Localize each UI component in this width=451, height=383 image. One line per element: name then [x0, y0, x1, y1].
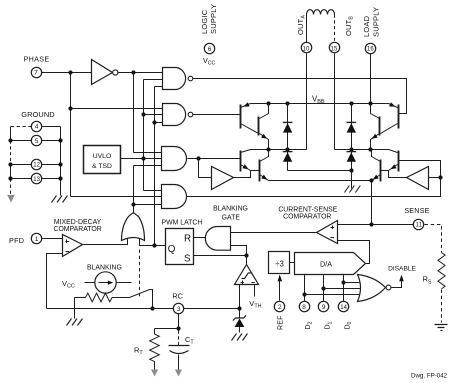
node D2 tap — [302, 292, 306, 296]
wire latch Q to OR gate — [140, 239, 166, 246]
wire G4 out to right sink drive — [187, 161, 441, 197]
pin 4 GROUND — [31, 121, 41, 131]
wire OUT B rail — [335, 149, 389, 151]
node right drive junction — [438, 175, 442, 179]
wire ground right rail — [60, 127, 62, 196]
wire VBB rail — [251, 103, 389, 105]
pin 9 D1 — [318, 301, 328, 311]
wire bus inverter to G3 — [133, 73, 135, 153]
flip-flop PWM latch — [166, 229, 194, 265]
node D0 tap — [341, 280, 345, 284]
node uvlo bus G2 tap — [141, 112, 145, 116]
wire D1 bit line — [323, 275, 325, 302]
svg-text:8: 8 — [302, 304, 306, 311]
wire resistor left to ground — [74, 298, 76, 319]
svg-text:Q: Q — [168, 244, 176, 255]
transistor Q5 PNP source-right — [381, 102, 399, 133]
pin 14 D0 — [338, 301, 348, 311]
node sense tap — [369, 178, 373, 182]
wire pin16 to VBB rail — [370, 54, 372, 104]
transistor Q1 PNP source-left — [241, 102, 259, 133]
svg-text:LOGIC: LOGIC — [200, 9, 209, 34]
node VBB taps — [266, 101, 270, 105]
svg-text:D/A: D/A — [320, 260, 332, 269]
svg-text:RC: RC — [172, 292, 182, 301]
node sense junction — [369, 222, 373, 226]
wire emitter bottom rail — [269, 180, 372, 182]
transistor Q6 NPN source-right — [370, 104, 379, 150]
node osc RC junction — [237, 306, 241, 310]
svg-text:2: 2 — [278, 304, 282, 311]
gate G3 AND sink-left — [121, 147, 187, 171]
pin 6 LOGIC SUPPLY — [204, 43, 214, 53]
wire pin1 to comparator — [42, 238, 63, 240]
svg-text:GROUND: GROUND — [21, 110, 54, 119]
wire inverter out to gate G1 — [118, 72, 163, 74]
wire G2 out to Q1 base — [193, 114, 241, 116]
wire pin13 right — [42, 178, 61, 180]
node switch to RC wire — [150, 306, 154, 310]
transistor Q2 NPN source-left — [259, 104, 269, 150]
svg-text:& TSD: & TSD — [92, 163, 112, 170]
wire pin4 left dashed — [11, 126, 32, 128]
svg-text:S: S — [184, 253, 191, 264]
wire comparator minus loop to D/A — [338, 241, 370, 264]
wire source to switch stub — [117, 282, 132, 284]
wire bus blanking-OR to G3-G4 — [133, 166, 135, 214]
wire inductor to pin10 — [306, 15, 308, 43]
svg-text:PFD: PFD — [9, 236, 24, 245]
op-amp current-sense comparator — [317, 221, 338, 244]
node RT-CT junction — [176, 326, 180, 330]
node uvlo bus G3 tap — [141, 156, 145, 160]
svg-text:3: 3 — [177, 306, 181, 313]
svg-text:7: 7 — [34, 70, 38, 77]
transistor Q3 NPN sink-left — [241, 150, 260, 172]
pin 1 PFD — [31, 233, 41, 243]
node S osc junction — [244, 253, 248, 257]
diode D2 lower-left — [283, 150, 293, 171]
oscillator comparator with hysteresis — [235, 256, 259, 285]
svg-text:REF: REF — [278, 315, 285, 330]
node OR bus G4 tap — [131, 202, 135, 206]
svg-text:10: 10 — [303, 47, 310, 53]
transistor Q4 NPN sink-left — [260, 150, 269, 182]
ground arrow left rail — [7, 195, 15, 203]
wire sense drop — [371, 181, 373, 225]
wire D2 bit line — [304, 275, 306, 302]
svg-text:COMPARATOR: COMPARATOR — [53, 226, 101, 233]
svg-text:PWM LATCH: PWM LATCH — [162, 220, 203, 227]
buffer B2 — [407, 167, 429, 190]
svg-text:Dwg. FP-042: Dwg. FP-042 — [411, 372, 448, 379]
node right rail joints — [58, 138, 62, 142]
wire OR out to bus — [133, 205, 135, 214]
wire OUT B vertical — [334, 54, 336, 150]
op-amp mixed-decay comparator — [63, 235, 83, 257]
svg-text:SENSE: SENSE — [404, 206, 429, 215]
wire comparator out to blanking gate — [231, 232, 317, 234]
pin 5 GROUND — [31, 135, 41, 145]
node OUT A taps — [266, 147, 270, 151]
resistor RT — [150, 334, 160, 372]
D/A converter box — [295, 253, 366, 275]
wire B2 out to Q4' base — [389, 171, 407, 178]
wire pin12 right — [42, 164, 61, 166]
wire RC line — [47, 308, 240, 310]
zener diode threshold — [233, 309, 246, 333]
gate G1 NAND source-left — [144, 68, 193, 90]
svg-text:GATE: GATE — [222, 215, 241, 222]
svg-text:16: 16 — [367, 47, 374, 53]
diode D4 lower-right — [347, 150, 357, 171]
pin 13 GROUND — [31, 173, 41, 183]
node OUT B taps — [349, 147, 353, 151]
svg-text:MIXED-DECAY: MIXED-DECAY — [54, 219, 102, 226]
svg-text:÷3: ÷3 — [275, 259, 284, 268]
wire pin4 right — [42, 126, 61, 128]
transistor Q7 NPN sink-right — [381, 150, 399, 172]
wire pin3 down — [178, 314, 180, 329]
pin 7 PHASE — [31, 67, 41, 77]
svg-text:13: 13 — [33, 177, 40, 183]
svg-text:15: 15 — [331, 47, 338, 53]
svg-text:CURRENT-SENSE: CURRENT-SENSE — [278, 207, 337, 214]
wire REF arrow to div3 — [278, 275, 283, 301]
UVLO & TSD box — [84, 146, 121, 174]
diode D1 upper-left — [283, 104, 293, 150]
svg-text:COMPARATOR: COMPARATOR — [283, 214, 331, 221]
ground chassis right rail — [52, 196, 68, 203]
wire vcc to source — [85, 282, 96, 284]
wire comparator out to OR gate — [83, 239, 128, 245]
wire mixed-decay feedback to RC — [47, 254, 63, 309]
pin 10 OUT A — [301, 42, 311, 52]
inductor load winding — [307, 10, 335, 15]
buffer B1 input wire — [199, 159, 212, 178]
ground arrow RT — [151, 370, 158, 377]
node D1 tap — [321, 286, 325, 290]
node Q bus G2 tap — [152, 120, 156, 124]
wire OUT A vertical — [306, 54, 308, 150]
buffer B2 input wire — [429, 177, 441, 179]
divider box div3 — [269, 252, 290, 274]
wire CT top dashed — [178, 331, 180, 346]
wire OUT A rail — [251, 149, 307, 151]
wire phase pin to inverter — [42, 72, 93, 74]
pin 16 LOAD SUPPLY — [365, 43, 375, 53]
svg-text:11: 11 — [416, 223, 423, 229]
wire blanking gate input2 to S — [231, 246, 247, 256]
nor-gate disable — [358, 275, 391, 302]
wire bus uvlo G1-G2-G3-G4 — [143, 80, 145, 191]
svg-text:PHASE: PHASE — [24, 55, 50, 64]
svg-text:12: 12 — [33, 163, 40, 169]
svg-text:UVLO: UVLO — [93, 153, 112, 160]
svg-text:DISABLE: DISABLE — [388, 266, 416, 273]
pin 2 REF — [274, 301, 284, 311]
node diode link junction — [349, 168, 353, 172]
pin 15 OUT B — [329, 42, 339, 52]
svg-text:LOAD: LOAD — [362, 15, 371, 37]
wire B1 out to Q4 base — [234, 171, 251, 178]
transistor Q8 NPN sink-right — [371, 150, 380, 182]
wire pin5 right — [42, 140, 61, 142]
wire pin13 left — [11, 178, 32, 180]
ground chassis zener — [232, 334, 248, 341]
ground chassis blanking — [67, 319, 83, 326]
wire div3 to D/A — [290, 262, 295, 264]
capacitor CT — [169, 346, 190, 373]
node phase junction — [68, 70, 72, 74]
wire D0 bit line — [343, 275, 345, 302]
svg-text:1: 1 — [35, 236, 39, 243]
svg-text:14: 14 — [340, 305, 347, 311]
ground chassis bridge — [345, 186, 361, 193]
pin 11 SENSE — [413, 219, 423, 229]
ground earth RS — [435, 325, 448, 331]
node inverter-out junction — [131, 70, 135, 74]
resistor RS — [438, 253, 445, 289]
ground arrow CT — [175, 370, 182, 377]
svg-text:BLANKING: BLANKING — [87, 264, 122, 271]
node left rail joints — [8, 138, 12, 142]
node Q-line bus tap — [152, 243, 156, 247]
wire G3 out to Q3 base — [188, 158, 241, 160]
wire sense line to pin11 — [338, 224, 414, 226]
svg-text:9: 9 — [322, 304, 326, 311]
wire bus latch-Q to G1-G2 — [154, 87, 156, 246]
inverter U1 — [92, 60, 113, 85]
wire diode bottom link — [288, 170, 352, 172]
svg-text:R: R — [184, 233, 191, 244]
wire bus phase to G4 — [70, 73, 72, 197]
svg-text:4: 4 — [35, 124, 39, 131]
svg-text:SUPPLY: SUPPLY — [209, 4, 218, 34]
wire osc minus input VTH stub — [254, 285, 256, 297]
current source blanking — [95, 272, 116, 293]
wire Q dashed to decay switch — [139, 250, 141, 299]
wire NOR out to DISABLE arrow — [391, 275, 404, 288]
wire latch S input — [194, 255, 247, 257]
wire pin11 to RS dashed — [425, 225, 442, 253]
diode D3 upper-right — [347, 104, 357, 150]
wire RS bottom dashed — [441, 290, 443, 323]
node phase-G2 junction — [68, 106, 72, 110]
or-gate blanking OR — [122, 213, 145, 241]
wire pin5 left — [11, 140, 32, 142]
pin 3 RC — [173, 303, 183, 313]
svg-text:5: 5 — [35, 138, 39, 145]
gate G4 AND sink-right — [71, 185, 187, 209]
wire ground left rail — [10, 127, 12, 179]
wire osc plus input to RC — [239, 285, 241, 309]
pin 8 D2 — [299, 301, 309, 311]
wire pin12 left — [11, 164, 32, 166]
resistor blanking — [75, 293, 130, 302]
wire inductor to pin15 dashed — [334, 15, 336, 43]
and-gate blanking gate mirrored — [205, 227, 230, 251]
wire NOR inputs — [305, 283, 363, 295]
wire RT top — [154, 329, 156, 335]
svg-text:BLANKING: BLANKING — [213, 206, 248, 213]
wire bridge ground stub — [351, 171, 353, 189]
wire latch R input — [194, 237, 206, 239]
switch decay mode — [130, 290, 153, 309]
svg-text:SUPPLY: SUPPLY — [371, 7, 380, 37]
wire G1 out to right side top — [193, 79, 407, 114]
wire junction to RT — [155, 328, 179, 330]
node G3 out junction — [196, 156, 200, 160]
pin 12 GROUND — [31, 159, 41, 169]
gate G2 NAND source-right — [71, 104, 193, 126]
buffer B1 — [212, 167, 234, 190]
svg-text:6: 6 — [208, 46, 212, 53]
